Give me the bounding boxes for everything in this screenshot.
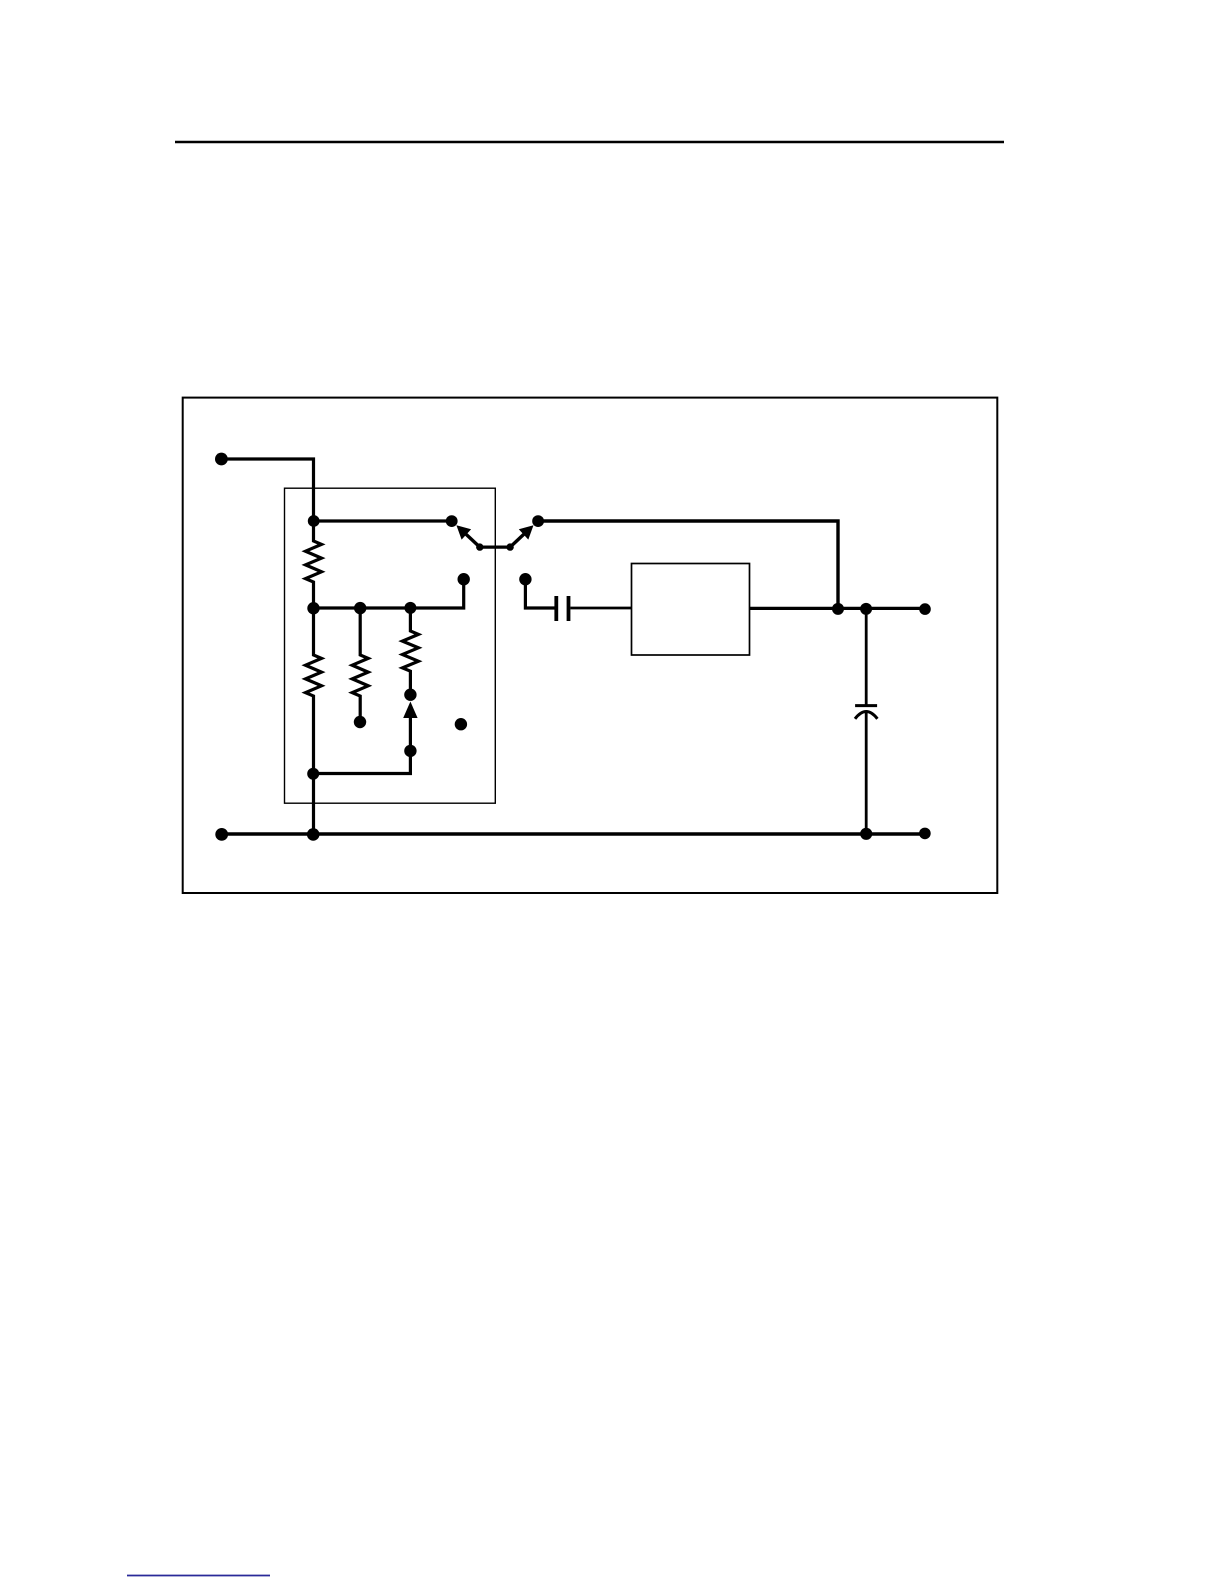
wire: switch output over to right column — [538, 521, 838, 609]
capacitor C1 plate left — [554, 596, 558, 621]
node: bus C2 junction — [860, 828, 872, 840]
node: isolated test point inside box — [455, 718, 467, 730]
wire: middle rail with stub up to tap terminal — [314, 580, 464, 608]
sub-circuit box (voltage divider block outline) — [285, 488, 496, 803]
capacitor C2 curved plate — [855, 712, 877, 719]
switch S1 pole dot right — [506, 543, 513, 550]
switch S1 right contact — [532, 515, 544, 527]
switch S1 left contact — [446, 515, 458, 527]
wire: bottom link of divider — [314, 751, 411, 774]
switch S1 left arm — [461, 530, 480, 548]
wiper arrowhead — [403, 702, 417, 719]
block U1 — [632, 564, 750, 656]
resistor R2 (left lower resistor) — [306, 608, 322, 834]
wire: ground bus — [222, 832, 925, 835]
switch S1 left arrowhead — [456, 525, 471, 539]
node IN — [215, 453, 228, 466]
wire: C1 to block input — [570, 607, 631, 610]
switch S1 pole dot left — [476, 543, 483, 550]
node: bus left terminal — [215, 828, 228, 841]
node: output junction C2 top — [860, 603, 872, 615]
wire: divider top rail to switch left contact — [314, 519, 452, 522]
hyperlink underline — [127, 1575, 270, 1577]
node: bus right terminal — [919, 828, 931, 840]
wire: C2 bottom lead — [865, 713, 868, 834]
switch S1 right arrowhead — [519, 525, 534, 539]
resistor R4 (trimmed resistor upper part) — [402, 608, 418, 695]
wiper arrow shaft — [409, 715, 412, 751]
node: divider top dot junction on mid rail — [307, 602, 319, 614]
node: C1 input terminal — [519, 573, 531, 585]
capacitor C2 flat plate — [855, 704, 877, 707]
wire: block output rail — [750, 607, 926, 610]
node: output junction left — [832, 603, 844, 615]
switch S1 right arm — [510, 530, 529, 548]
node: tap terminal — [458, 573, 470, 585]
node: R1 top junction — [308, 515, 320, 527]
node: R3 bottom terminal — [354, 716, 366, 728]
node: divider bottom junction — [307, 768, 319, 780]
wire: input node to divider top — [221, 459, 313, 521]
resistor R3 (middle lower resistor) — [352, 608, 368, 722]
wire: C1 input stub — [525, 583, 554, 608]
node: wiper lower junction — [404, 745, 416, 757]
node: output terminal — [919, 603, 931, 615]
node: R3 top junction — [354, 602, 366, 614]
capacitor C1 plate right — [567, 596, 571, 621]
wire: C2 top lead — [865, 609, 868, 705]
node: R4 top junction — [404, 602, 416, 614]
node: bus divider junction — [307, 828, 320, 841]
node: R4 lower terminal — [404, 689, 416, 701]
switch S1 pole link — [480, 545, 510, 548]
resistor R1 (top divider resistor) — [306, 521, 322, 608]
